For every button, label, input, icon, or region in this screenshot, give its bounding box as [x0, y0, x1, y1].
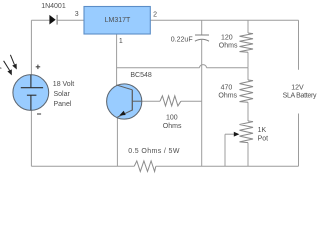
svg-text:0.5 Ohms / 5W: 0.5 Ohms / 5W [128, 148, 180, 155]
wire base to resistor [142, 100, 160, 102]
wire diode cathode to regulator [58, 19, 84, 21]
solar panel source circle [13, 75, 49, 111]
svg-text:1: 1 [119, 38, 123, 45]
wire pot bottom lead [247, 143, 249, 167]
light arrow 3 edge tick [0, 67, 1, 70]
wire right rail lower [298, 114, 300, 167]
svg-text:0.22uF: 0.22uF [171, 36, 193, 43]
svg-text:1N4001: 1N4001 [41, 3, 66, 10]
wire 100 ohm to cap node [181, 100, 202, 102]
diode D 1N4001 [49, 15, 57, 25]
wire 120 ohm top lead [247, 20, 249, 33]
svg-text:120: 120 [221, 35, 233, 42]
wire LM317 pin1 down to collector [116, 34, 118, 86]
wire bottom rail left [31, 165, 134, 167]
svg-text:Ohms: Ohms [163, 123, 182, 130]
svg-text:18 Volt: 18 Volt [53, 81, 74, 88]
svg-text:LM317T: LM317T [105, 17, 131, 24]
solar panel minus sign [37, 113, 41, 115]
regulator U LM317T body [84, 7, 150, 35]
wire right rail upper [298, 20, 300, 69]
wire left rail lower [30, 110, 32, 166]
wire between 120 and adj node [247, 52, 249, 68]
wire left rail upper [30, 20, 32, 75]
resistor R 470 Ohms [240, 80, 254, 102]
svg-text:Pot: Pot [258, 135, 269, 142]
svg-text:100: 100 [166, 115, 178, 122]
wire capacitor top lead [201, 20, 203, 35]
wire wiper to bottom rail [224, 134, 226, 166]
svg-text:470: 470 [221, 85, 233, 92]
light arrow 2 [4, 61, 12, 76]
capacitor C 0.22uF plates [195, 35, 209, 41]
wire emitter down [116, 117, 118, 166]
svg-text:BC548: BC548 [130, 72, 152, 79]
resistor R 120 Ohms [240, 33, 254, 52]
wire top rail left [31, 19, 49, 21]
light arrow 1 [10, 55, 16, 70]
potentiometer wiper arrow [234, 132, 240, 137]
transistor internals [117, 85, 142, 117]
wire ADJ horizontal right segment [207, 67, 249, 69]
resistor R 0.5 Ohms 5W [134, 161, 156, 172]
potentiometer 1K track [240, 121, 254, 143]
wire 470 to pot [247, 102, 249, 121]
svg-text:12V: 12V [291, 85, 304, 92]
wire bottom rail right [156, 165, 299, 167]
svg-text:2: 2 [153, 11, 157, 18]
transistor emitter arrow [119, 111, 125, 116]
solar panel plus sign [36, 65, 41, 70]
svg-text:Panel: Panel [54, 101, 72, 108]
wire ADJ horizontal left segment [117, 67, 200, 69]
solar panel cell symbol [21, 75, 43, 110]
svg-text:Ohms: Ohms [218, 92, 237, 99]
resistor R 100 Ohms [160, 96, 181, 106]
svg-text:Ohms: Ohms [219, 42, 238, 49]
wire capacitor bottom lead to bottom rail [201, 40, 203, 167]
svg-text:SLA Battery: SLA Battery [283, 93, 317, 100]
svg-text:3: 3 [75, 11, 79, 18]
transistor Q BC548 body [107, 84, 142, 119]
wire regulator output to battery plus [150, 19, 298, 21]
wire hop over capacitor lead [200, 65, 207, 68]
wire adj node to 470 [247, 68, 249, 80]
svg-text:1K: 1K [258, 127, 267, 134]
svg-text:Solar: Solar [54, 91, 71, 98]
wire pot wiper [225, 133, 235, 135]
